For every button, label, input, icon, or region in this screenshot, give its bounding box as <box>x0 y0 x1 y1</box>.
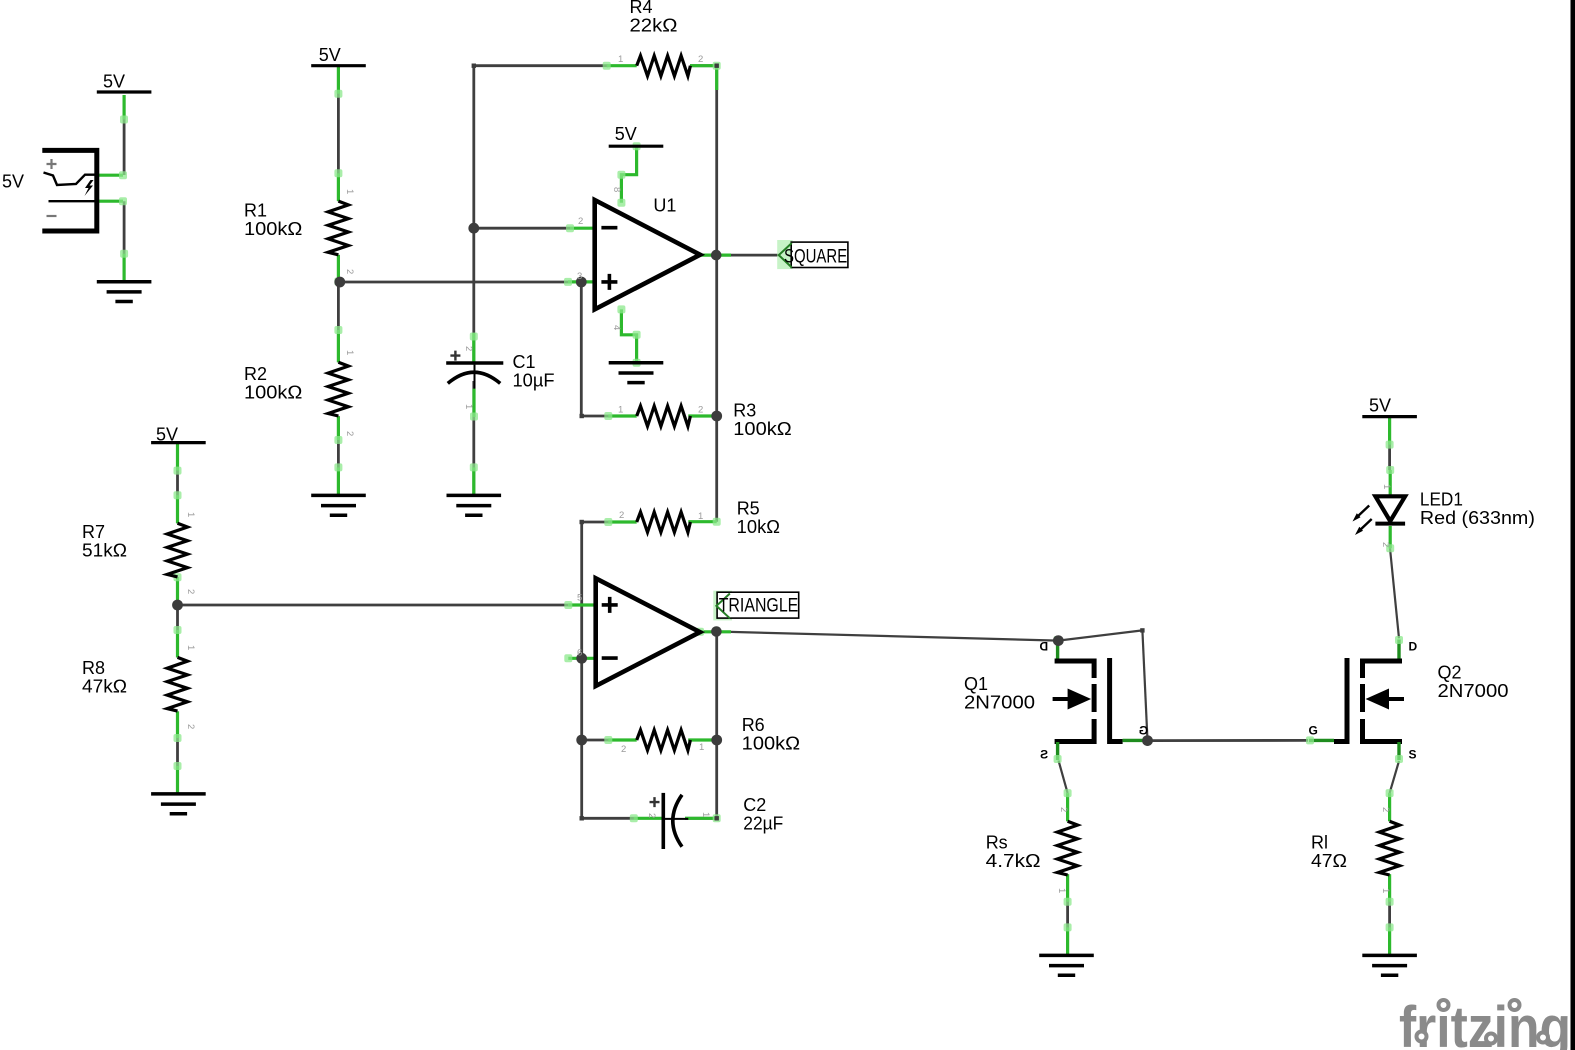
svg-text:100kΩ: 100kΩ <box>742 734 800 754</box>
svg-text:2: 2 <box>646 813 657 818</box>
svg-text:R7: R7 <box>82 522 105 542</box>
svg-text:U1: U1 <box>653 195 676 215</box>
svg-text:Red (633nm): Red (633nm) <box>1420 508 1535 528</box>
svg-text:6: 6 <box>577 648 582 659</box>
svg-text:2: 2 <box>344 269 355 274</box>
svg-text:1: 1 <box>1380 888 1391 893</box>
svg-text:2: 2 <box>1380 807 1391 812</box>
svg-text:2: 2 <box>185 589 196 594</box>
svg-text:10µF: 10µF <box>513 370 555 390</box>
svg-text:1: 1 <box>344 350 355 355</box>
svg-text:2N7000: 2N7000 <box>964 693 1035 713</box>
svg-text:1: 1 <box>618 405 623 416</box>
svg-text:C1: C1 <box>513 352 536 372</box>
svg-text:4.7kΩ: 4.7kΩ <box>986 851 1041 871</box>
svg-text:R3: R3 <box>733 400 756 420</box>
svg-text:1: 1 <box>1381 484 1392 489</box>
svg-text:5V: 5V <box>103 72 125 92</box>
svg-text:47kΩ: 47kΩ <box>82 677 127 697</box>
svg-text:5V: 5V <box>615 124 637 144</box>
svg-text:3: 3 <box>577 271 582 282</box>
svg-text:2: 2 <box>619 510 624 521</box>
svg-text:100kΩ: 100kΩ <box>244 219 302 239</box>
svg-text:22kΩ: 22kΩ <box>630 16 678 36</box>
svg-text:100kΩ: 100kΩ <box>733 419 791 439</box>
svg-text:LED1: LED1 <box>1420 489 1463 509</box>
svg-text:R2: R2 <box>244 364 267 384</box>
svg-text:2: 2 <box>185 724 196 729</box>
svg-text:1: 1 <box>185 645 196 650</box>
svg-text:2: 2 <box>578 216 583 227</box>
svg-text:5V: 5V <box>156 424 178 444</box>
svg-text:2: 2 <box>1380 542 1391 547</box>
svg-text:R6: R6 <box>742 715 765 735</box>
svg-text:1: 1 <box>1056 888 1067 893</box>
svg-text:2N7000: 2N7000 <box>1438 681 1509 701</box>
svg-text:2: 2 <box>344 431 355 436</box>
svg-text:2: 2 <box>1058 807 1069 812</box>
svg-text:R1: R1 <box>244 201 267 221</box>
svg-text:1: 1 <box>185 512 196 517</box>
svg-text:47Ω: 47Ω <box>1311 851 1347 871</box>
svg-text:C2: C2 <box>743 795 766 815</box>
svg-text:Q1: Q1 <box>964 674 988 694</box>
svg-text:R8: R8 <box>82 658 105 678</box>
svg-text:Q2: Q2 <box>1438 663 1462 683</box>
svg-text:1: 1 <box>698 511 703 522</box>
svg-text:SQUARE: SQUARE <box>784 246 847 267</box>
svg-text:R4: R4 <box>630 0 653 17</box>
svg-text:2: 2 <box>621 744 626 755</box>
svg-text:8: 8 <box>611 187 622 192</box>
svg-text:S: S <box>1409 748 1417 762</box>
svg-text:G: G <box>1309 724 1318 738</box>
svg-text:1: 1 <box>699 742 704 753</box>
svg-text:22µF: 22µF <box>743 814 783 834</box>
svg-text:2: 2 <box>698 405 703 416</box>
svg-text:5V: 5V <box>319 45 341 65</box>
svg-text:Rl: Rl <box>1311 832 1328 852</box>
svg-text:1: 1 <box>618 54 623 65</box>
svg-text:TRIANGLE: TRIANGLE <box>719 596 799 617</box>
svg-text:5V: 5V <box>1369 395 1391 415</box>
svg-text:1: 1 <box>344 189 355 194</box>
svg-text:2: 2 <box>698 54 703 65</box>
svg-text:R5: R5 <box>737 499 760 519</box>
svg-text:2: 2 <box>463 346 474 351</box>
svg-text:Rs: Rs <box>986 832 1008 852</box>
svg-text:5: 5 <box>577 593 582 604</box>
svg-text:5V: 5V <box>2 171 24 191</box>
svg-text:1: 1 <box>700 812 711 817</box>
svg-text:1: 1 <box>463 404 474 409</box>
svg-text:51kΩ: 51kΩ <box>82 541 127 561</box>
svg-text:4: 4 <box>611 325 622 330</box>
svg-text:100kΩ: 100kΩ <box>244 382 302 402</box>
svg-text:D: D <box>1409 640 1418 654</box>
svg-text:10kΩ: 10kΩ <box>737 517 780 537</box>
